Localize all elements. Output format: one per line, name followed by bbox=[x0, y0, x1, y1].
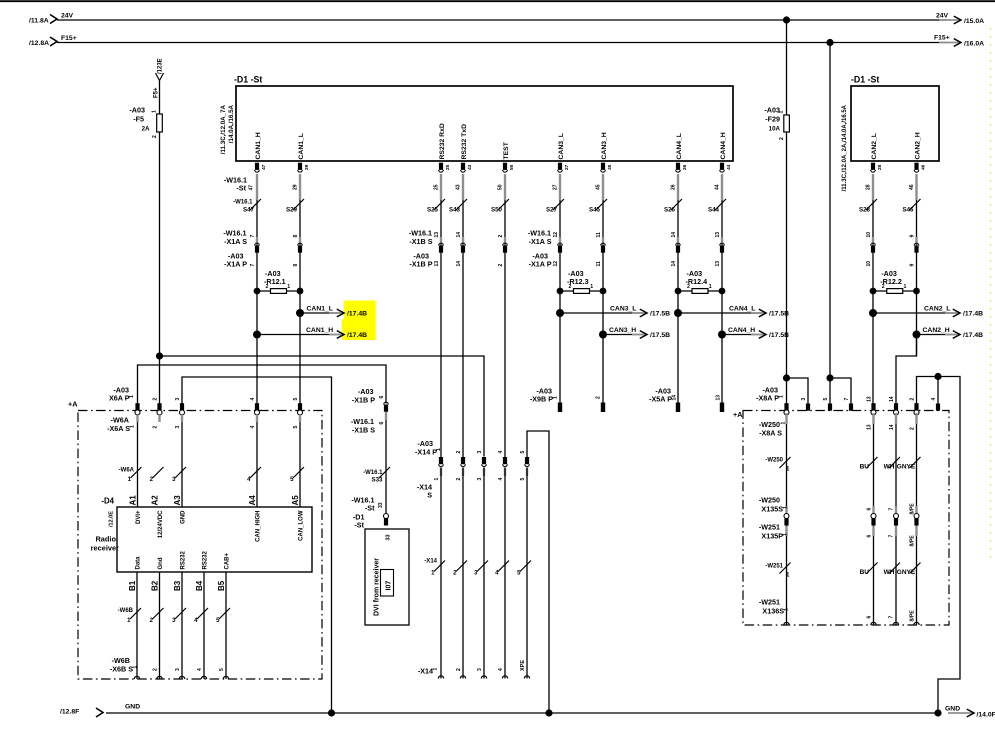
svg-text:-D4: -D4 bbox=[101, 497, 114, 506]
svg-text:3: 3 bbox=[175, 668, 181, 671]
pin B4 RS232 of D4 bbox=[195, 550, 208, 591]
pin A4 CAN_HIGH of D4 bbox=[248, 495, 261, 542]
wire X14 pin5 PE loop to GND bbox=[527, 431, 549, 713]
connector S25 bbox=[427, 207, 443, 267]
svg-text:GND: GND bbox=[945, 706, 960, 713]
svg-text:-W251: -W251 bbox=[759, 598, 780, 607]
svg-text:-A03: -A03 bbox=[764, 106, 780, 115]
svg-text:/15.0A: /15.0A bbox=[964, 18, 984, 25]
wire 46 column x=916.5 bbox=[909, 174, 921, 356]
connector X8A pin 14 bbox=[889, 396, 899, 415]
connector X135 splice WH bbox=[894, 514, 899, 519]
node CAN2_H branch bbox=[913, 327, 984, 339]
svg-text:/17.4B: /17.4B bbox=[963, 311, 983, 318]
connector X5A P pin 13 bbox=[716, 395, 725, 412]
svg-text:2: 2 bbox=[152, 135, 158, 138]
svg-text:7: 7 bbox=[250, 235, 256, 238]
svg-text:-W250: -W250 bbox=[759, 496, 780, 505]
connector X14 pin 5 bbox=[520, 451, 530, 481]
connector labels W250 X8A S bbox=[759, 420, 787, 438]
svg-text:24V: 24V bbox=[61, 13, 74, 20]
connector X9B P pin 2 bbox=[596, 396, 606, 412]
svg-text:-W6A: -W6A bbox=[119, 468, 135, 474]
svg-text:S46: S46 bbox=[902, 207, 914, 214]
svg-text:4: 4 bbox=[197, 668, 203, 671]
svg-text:CAN2_L: CAN2_L bbox=[871, 133, 878, 159]
svg-text:-X8A P: -X8A P bbox=[756, 394, 779, 403]
svg-text:F15+: F15+ bbox=[934, 35, 950, 42]
node CAN3_H branch bbox=[599, 327, 670, 339]
svg-text:S26: S26 bbox=[664, 207, 676, 214]
svg-text:47: 47 bbox=[261, 164, 267, 170]
svg-text:8: 8 bbox=[293, 235, 299, 238]
svg-text:27: 27 bbox=[564, 164, 570, 170]
junction PE to GND rail bbox=[545, 709, 552, 716]
junction PE pin4 bbox=[934, 373, 941, 380]
svg-text:25: 25 bbox=[433, 184, 439, 190]
svg-text:2A: 2A bbox=[142, 126, 150, 133]
svg-text:/123E: /123E bbox=[158, 58, 164, 74]
svg-text:CAN2_H: CAN2_H bbox=[914, 132, 921, 159]
control unit D1 (left) bbox=[220, 75, 733, 162]
svg-text:-F5: -F5 bbox=[133, 115, 144, 124]
svg-text:CAB+: CAB+ bbox=[225, 553, 231, 570]
svg-text:5: 5 bbox=[219, 668, 225, 671]
fuse F29 (-A03 -F29 10A) bbox=[764, 106, 789, 141]
svg-text:-St: -St bbox=[365, 504, 375, 513]
svg-text:DVI+: DVI+ bbox=[136, 510, 142, 524]
svg-text:7: 7 bbox=[250, 264, 256, 267]
svg-text:S33: S33 bbox=[371, 477, 383, 484]
svg-text:CAN_LOW: CAN_LOW bbox=[299, 510, 305, 541]
svg-text:2: 2 bbox=[266, 284, 269, 290]
wire X14-4 lower bbox=[495, 468, 509, 679]
svg-text:1: 1 bbox=[779, 111, 785, 114]
connector X135 splice GNYE bbox=[914, 514, 919, 519]
svg-text:1: 1 bbox=[287, 284, 290, 290]
svg-text:CAN4_H: CAN4_H bbox=[720, 132, 727, 159]
wire W250 WH bbox=[889, 413, 900, 625]
wire branch to X8A pin7 bbox=[830, 378, 851, 404]
svg-text:14: 14 bbox=[456, 261, 462, 267]
svg-text:3: 3 bbox=[175, 426, 181, 429]
wire 43 column x=463 bbox=[455, 174, 467, 462]
svg-text:GNYE: GNYE bbox=[897, 464, 916, 471]
svg-text:1: 1 bbox=[783, 506, 789, 509]
svg-text:-X14: -X14 bbox=[424, 559, 437, 565]
connector labels X14 S bbox=[417, 483, 432, 500]
connector labels W251 X136S bbox=[759, 598, 916, 622]
svg-text:45: 45 bbox=[595, 184, 601, 190]
svg-text:-X9B P: -X9B P bbox=[530, 395, 553, 404]
connector X135 splice BU bbox=[871, 514, 876, 519]
svg-text:2: 2 bbox=[779, 137, 785, 140]
wire 28 column x=873 bbox=[865, 174, 877, 404]
svg-text:2: 2 bbox=[596, 396, 602, 399]
svg-text:1: 1 bbox=[130, 425, 136, 428]
svg-text:27: 27 bbox=[552, 184, 558, 190]
wire X14-3 lower bbox=[474, 468, 488, 679]
svg-text:/14.0F: /14.0F bbox=[977, 712, 995, 719]
svg-text:7: 7 bbox=[889, 616, 895, 619]
enclosure +A (right) bbox=[733, 410, 949, 625]
svg-text:-W250: -W250 bbox=[765, 458, 783, 464]
svg-text:1: 1 bbox=[434, 478, 440, 481]
svg-text:S28: S28 bbox=[859, 207, 871, 214]
svg-text:4: 4 bbox=[498, 668, 504, 671]
pin A2 12/24VDC of D4 bbox=[151, 495, 164, 538]
svg-text:CAN_HIGH: CAN_HIGH bbox=[256, 511, 262, 542]
svg-text:1: 1 bbox=[129, 395, 135, 398]
svg-text:5: 5 bbox=[293, 426, 299, 429]
svg-text:-X6B S: -X6B S bbox=[110, 665, 133, 674]
net 24V rail bbox=[29, 13, 984, 26]
svg-text:43: 43 bbox=[467, 164, 473, 170]
svg-text:8: 8 bbox=[293, 264, 299, 267]
svg-text:RS232: RS232 bbox=[203, 550, 209, 569]
wire 29 column x=300 bbox=[292, 174, 304, 507]
svg-text:CAN3_H: CAN3_H bbox=[601, 132, 608, 159]
svg-text:10A: 10A bbox=[769, 126, 781, 133]
svg-text:46: 46 bbox=[920, 164, 926, 170]
svg-text:CAN2_L: CAN2_L bbox=[924, 305, 950, 312]
svg-text:Radio: Radio bbox=[95, 535, 116, 544]
svg-text:-St: -St bbox=[354, 521, 364, 530]
svg-text:2: 2 bbox=[498, 264, 504, 267]
svg-text:13: 13 bbox=[716, 395, 722, 401]
svg-text:-X1A S: -X1A S bbox=[224, 237, 247, 246]
pin RS232 TxD of U D1 bbox=[461, 124, 473, 172]
svg-text:-X14 P: -X14 P bbox=[415, 448, 437, 457]
connector S43 bbox=[449, 207, 465, 267]
fuse F5 (-A03 -F5 2A) bbox=[129, 106, 162, 139]
svg-text:F5+: F5+ bbox=[154, 87, 160, 98]
svg-text:6: 6 bbox=[867, 616, 873, 619]
svg-text:33: 33 bbox=[378, 502, 384, 508]
connector W16.1 -St 33 bbox=[351, 496, 388, 526]
connector X5A P pin 14 bbox=[649, 387, 680, 413]
end socket X136 1 bbox=[784, 622, 789, 625]
connector X8A pin 1 bbox=[784, 403, 789, 415]
svg-text:8/PE: 8/PE bbox=[910, 535, 916, 547]
connector S29 bbox=[286, 207, 302, 267]
svg-text:47: 47 bbox=[249, 185, 255, 191]
svg-text:-X1A P: -X1A P bbox=[529, 260, 552, 269]
svg-text:Data: Data bbox=[136, 556, 142, 570]
svg-text:3: 3 bbox=[477, 478, 483, 481]
connector labels W6B X6B S bbox=[110, 656, 139, 674]
svg-text:BU: BU bbox=[860, 569, 870, 576]
connector labels W250 X135S bbox=[759, 496, 916, 515]
svg-text:43: 43 bbox=[455, 184, 461, 190]
svg-text:-X1A P: -X1A P bbox=[224, 260, 247, 269]
connector X9B P pin 1 bbox=[530, 387, 562, 413]
svg-text:2: 2 bbox=[456, 478, 462, 481]
connector X8A pin 4 bbox=[931, 398, 940, 411]
svg-text:12: 12 bbox=[553, 232, 559, 238]
cable W6B slashes bbox=[118, 608, 134, 614]
wire color labels row 1 bbox=[765, 458, 916, 473]
connector labels X6A P / W6A X6A S bbox=[107, 386, 135, 434]
wire branch to X8A pin3 bbox=[787, 378, 809, 404]
connector S45 bbox=[589, 207, 605, 267]
svg-text:2: 2 bbox=[882, 284, 885, 290]
svg-text:CAN3_L: CAN3_L bbox=[610, 305, 636, 312]
svg-text:6: 6 bbox=[379, 422, 385, 425]
connector labels X1A S/P (left) bbox=[223, 229, 247, 269]
connector X6A pin 2 bbox=[152, 398, 162, 429]
svg-text:11: 11 bbox=[596, 261, 602, 267]
svg-text:S25: S25 bbox=[427, 207, 439, 214]
enclosure +A (left) bbox=[68, 400, 322, 680]
node CAN1_H branch bbox=[253, 327, 367, 339]
node CAN1_L branch bbox=[296, 305, 367, 317]
svg-text:-X14: -X14 bbox=[418, 667, 433, 676]
pin CAN3_L of U D1 bbox=[558, 133, 570, 172]
svg-text:1: 1 bbox=[709, 284, 712, 290]
svg-text:CAN3_L: CAN3_L bbox=[558, 133, 565, 159]
svg-text:14: 14 bbox=[889, 396, 895, 402]
pin B5 CAB+ of D4 bbox=[217, 553, 230, 591]
svg-text:-X1A S: -X1A S bbox=[529, 237, 552, 246]
svg-text:12: 12 bbox=[553, 261, 559, 267]
node CAN4_H branch bbox=[718, 327, 789, 339]
node CAN2_L branch bbox=[869, 305, 983, 317]
svg-text:/16.0A: /16.0A bbox=[964, 41, 984, 48]
connector X135 splice 1 bbox=[784, 514, 789, 519]
svg-text:S: S bbox=[427, 491, 432, 500]
svg-text:6: 6 bbox=[867, 535, 873, 538]
svg-text:CAN4_L: CAN4_L bbox=[676, 133, 683, 159]
svg-text:A2: A2 bbox=[151, 495, 160, 506]
wire X14-5 lower bbox=[517, 468, 531, 679]
svg-text:CAN2_H: CAN2_H bbox=[923, 327, 950, 334]
pin B2 Gnd of D4 bbox=[151, 557, 164, 591]
connector labels A03 X14 P bbox=[415, 439, 442, 457]
svg-text:CAN4_L: CAN4_L bbox=[729, 305, 755, 312]
svg-text:4: 4 bbox=[250, 398, 256, 401]
svg-text:14: 14 bbox=[889, 424, 895, 430]
svg-text:BU: BU bbox=[860, 464, 870, 471]
wire 44 column x=722 bbox=[714, 174, 726, 403]
svg-text:TEST: TEST bbox=[503, 141, 510, 159]
svg-text:Gnd: Gnd bbox=[158, 557, 164, 569]
connector X8A pin 2 bbox=[909, 398, 919, 416]
svg-text:/17.4B: /17.4B bbox=[347, 332, 367, 339]
connector S47 bbox=[243, 207, 259, 267]
junction 24V to F29 bbox=[783, 16, 790, 23]
svg-text:DVI from receiver: DVI from receiver bbox=[374, 558, 381, 616]
highlight yellow CAN1_H bbox=[342, 319, 376, 340]
pin CAN2_H of U D1 right bbox=[914, 132, 926, 172]
svg-text:/11.8A: /11.8A bbox=[29, 18, 49, 25]
svg-text:CAN1_L: CAN1_L bbox=[298, 133, 305, 159]
svg-text:A5: A5 bbox=[291, 495, 300, 506]
connector X8A pin 7 bbox=[844, 398, 853, 411]
connector S50 bbox=[491, 207, 507, 267]
svg-text:1: 1 bbox=[904, 284, 907, 290]
svg-text:50: 50 bbox=[497, 184, 503, 190]
wire W250 BU bbox=[867, 413, 878, 625]
wire color labels row 2 bbox=[765, 564, 916, 579]
control unit D1 (right) bbox=[842, 75, 939, 192]
svg-text:S44: S44 bbox=[708, 207, 720, 214]
svg-text:B2: B2 bbox=[151, 580, 160, 591]
svg-text:2: 2 bbox=[456, 451, 462, 454]
svg-text:13: 13 bbox=[715, 232, 721, 238]
svg-text:+A: +A bbox=[68, 400, 77, 409]
svg-text:29: 29 bbox=[304, 164, 310, 170]
svg-text:RS232 RxD: RS232 RxD bbox=[439, 123, 446, 159]
svg-text:1: 1 bbox=[590, 284, 593, 290]
connector S26 bbox=[664, 207, 680, 267]
svg-text:13: 13 bbox=[434, 232, 440, 238]
svg-text:7: 7 bbox=[889, 508, 895, 511]
svg-text:-X1B S: -X1B S bbox=[409, 237, 432, 246]
wire B1 bbox=[127, 572, 141, 679]
svg-text:S27: S27 bbox=[546, 207, 558, 214]
wire 25 column x=441 bbox=[433, 174, 445, 462]
wire F5 top bbox=[159, 81, 161, 115]
connector label X14 bottom bbox=[418, 667, 439, 676]
svg-text:/17.4B: /17.4B bbox=[963, 332, 983, 339]
svg-text:14: 14 bbox=[671, 261, 677, 267]
svg-text:S47: S47 bbox=[243, 207, 255, 214]
svg-text:/12.8F: /12.8F bbox=[60, 709, 79, 716]
connector labels W251 X135P bbox=[759, 523, 916, 547]
svg-text:26: 26 bbox=[682, 164, 688, 170]
junction F29 branch bbox=[783, 374, 790, 381]
svg-text:50: 50 bbox=[509, 164, 515, 170]
resistor R12.1 bbox=[254, 269, 304, 295]
junction F15+ branch bbox=[826, 374, 833, 381]
svg-text:8/PE: 8/PE bbox=[910, 503, 916, 515]
connector X6A pin 4 bbox=[250, 398, 260, 429]
svg-text:A1: A1 bbox=[129, 495, 138, 506]
pin CAN4_L of U D1 bbox=[676, 133, 688, 172]
connector X1B P pin 6 (DVI wire) bbox=[351, 387, 388, 435]
svg-text:CAN1_H: CAN1_H bbox=[255, 132, 262, 159]
net F15+ rail bbox=[29, 35, 984, 48]
connector S27 bbox=[546, 207, 562, 267]
svg-text:1: 1 bbox=[133, 666, 139, 669]
svg-text:GND: GND bbox=[181, 510, 187, 524]
connector X8A pin 3 bbox=[801, 398, 810, 411]
svg-text:2: 2 bbox=[152, 398, 158, 401]
svg-text:A4: A4 bbox=[248, 495, 257, 506]
svg-text:-X6A S: -X6A S bbox=[107, 424, 130, 433]
pin CAN2_L of U D1 right bbox=[871, 133, 883, 172]
svg-text:4: 4 bbox=[498, 451, 504, 454]
svg-text:/11.3C,/12.0A_7A: /11.3C,/12.0A_7A bbox=[220, 104, 227, 154]
wire CAN2_H jog to X8A pin14 bbox=[896, 335, 917, 404]
svg-text:/14.0A,/16.5A: /14.0A,/16.5A bbox=[228, 104, 235, 143]
svg-text:7: 7 bbox=[889, 535, 895, 538]
connector X14 pin 4 bbox=[498, 451, 508, 481]
svg-text:-D1 -St: -D1 -St bbox=[851, 75, 879, 85]
svg-text:33: 33 bbox=[386, 534, 392, 540]
wire B5 bbox=[216, 572, 230, 679]
svg-text:3: 3 bbox=[175, 398, 181, 401]
connector X6A pin 5 bbox=[293, 398, 303, 429]
svg-text:/12.8A: /12.8A bbox=[29, 40, 49, 47]
svg-text:CAN1_L: CAN1_L bbox=[307, 305, 333, 312]
svg-text:RS232: RS232 bbox=[181, 550, 187, 569]
svg-text:2: 2 bbox=[687, 284, 690, 290]
svg-text:2: 2 bbox=[909, 427, 915, 430]
svg-text:WH: WH bbox=[884, 569, 895, 576]
node CAN4_L branch bbox=[674, 305, 789, 317]
svg-text:1: 1 bbox=[152, 110, 158, 113]
svg-text:/12.0E: /12.0E bbox=[109, 511, 115, 527]
svg-text:4: 4 bbox=[498, 478, 504, 481]
svg-text:45: 45 bbox=[607, 164, 613, 170]
svg-text:9: 9 bbox=[909, 264, 915, 267]
svg-text:S50: S50 bbox=[491, 207, 503, 214]
device I07 DVI from receiver bbox=[365, 529, 409, 625]
svg-text:-X1B P: -X1B P bbox=[352, 396, 375, 405]
svg-text:/17.4B: /17.4B bbox=[347, 311, 367, 318]
connector labels A03 X8A P bbox=[756, 386, 784, 403]
connector S44 bbox=[708, 207, 724, 267]
svg-text:1: 1 bbox=[784, 608, 790, 611]
svg-text:4: 4 bbox=[931, 398, 937, 401]
wire X8A pin2/pin4 PE net bbox=[917, 377, 961, 714]
net GND rail bbox=[60, 704, 995, 719]
svg-text:3: 3 bbox=[477, 668, 483, 671]
wire GND from A3 to rail bbox=[182, 377, 332, 713]
svg-text:14: 14 bbox=[671, 232, 677, 238]
connector S46 bbox=[902, 207, 918, 267]
svg-text:-St: -St bbox=[236, 184, 246, 193]
wire DVI+ from A1 to X1B bbox=[138, 365, 387, 507]
connector labels X1A S/P (CAN3) bbox=[528, 229, 552, 269]
pin B3 RS232 of D4 bbox=[173, 550, 186, 591]
svg-text:2: 2 bbox=[152, 426, 158, 429]
svg-text:-W16.1: -W16.1 bbox=[233, 200, 253, 206]
svg-text:B4: B4 bbox=[195, 580, 204, 591]
cable label W16.1 -St bbox=[224, 176, 255, 193]
pin A5 CAN_LOW of D4 bbox=[291, 495, 304, 541]
wire F5 to receiver A2 bbox=[159, 132, 161, 404]
svg-text:28: 28 bbox=[865, 184, 871, 190]
svg-text:3: 3 bbox=[477, 451, 483, 454]
connector labels X1B S/P bbox=[409, 229, 433, 269]
junction PE to GND rail right bbox=[934, 709, 941, 716]
wire 12V supply branch to X14 pin3 bbox=[160, 356, 485, 457]
wire X14-2 lower bbox=[453, 468, 467, 679]
svg-text:4: 4 bbox=[250, 426, 256, 429]
cable W16.1 S33 slash bbox=[363, 467, 390, 484]
wire 50 column x=505 bbox=[497, 174, 509, 462]
cable W6A slashes bbox=[119, 467, 304, 483]
svg-text:44: 44 bbox=[726, 164, 732, 170]
svg-text:/17.5B: /17.5B bbox=[650, 311, 670, 318]
svg-text:13: 13 bbox=[866, 424, 872, 430]
svg-text:9: 9 bbox=[909, 235, 915, 238]
svg-text:X6A P: X6A P bbox=[109, 394, 130, 403]
svg-text:X136S: X136S bbox=[762, 607, 784, 616]
svg-text:29: 29 bbox=[292, 184, 298, 190]
svg-text:RS232 TxD: RS232 TxD bbox=[461, 124, 468, 160]
resistor R12.4 bbox=[675, 269, 726, 295]
svg-text:S29: S29 bbox=[286, 207, 298, 214]
highlight yellow CAN1_L bbox=[344, 301, 376, 320]
svg-text:25: 25 bbox=[445, 164, 451, 170]
svg-text:5: 5 bbox=[293, 398, 299, 401]
svg-text:26: 26 bbox=[670, 184, 676, 190]
end socket X136 BU bbox=[871, 622, 876, 625]
